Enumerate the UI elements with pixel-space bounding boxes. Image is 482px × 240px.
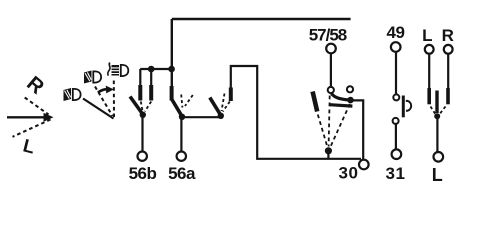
dimmer switch dashed position to contact xyxy=(223,102,230,112)
dimmer lever: momentary curved arrow xyxy=(98,89,108,92)
wire 56a pivot to dimmer switch pivot xyxy=(182,116,221,118)
dimmer switch moving arm (open, up-left) xyxy=(210,98,221,115)
wire pivot to terminal L (common) xyxy=(436,117,438,152)
switch 56b dashed position to left contact xyxy=(141,102,143,112)
56b right fixed contact bar xyxy=(149,85,153,101)
terminal circle 56a xyxy=(177,152,186,161)
switch 56b moving arm (open, up-left) xyxy=(130,97,143,115)
flasher bridge bar xyxy=(402,96,405,118)
headlamp icon: low beam (top of dimmer lever) xyxy=(84,71,101,84)
turn switch dashed position to L xyxy=(431,107,436,114)
wire 57/58 to switch contact xyxy=(330,54,332,87)
switch 56a dashed alternate position (vertical) xyxy=(181,95,182,108)
terminal circle 49 xyxy=(391,42,401,52)
top bus wire 57/58 feed xyxy=(172,18,351,20)
flasher lower contact circle xyxy=(393,118,399,124)
wire drop to 56b right contact xyxy=(150,69,152,86)
wire 49 to flasher contact xyxy=(395,52,397,94)
headlamp flasher icon: zigzag + high beam xyxy=(108,63,129,77)
svg-text:31: 31 xyxy=(385,164,405,183)
wire drop to 56b left contact xyxy=(139,69,141,86)
dimmer lever: solid ray to parking icon xyxy=(83,99,114,119)
wire 56a pivot to terminal xyxy=(180,117,182,151)
terminal circle L xyxy=(425,45,434,54)
terminal circle 30 xyxy=(359,160,369,170)
switch 56b dashed position to right contact xyxy=(145,102,151,112)
wire 56b pivot to terminal xyxy=(141,115,143,151)
svg-text:57/58: 57/58 xyxy=(309,26,347,45)
terminal circle R xyxy=(444,45,453,54)
lever dashed ray to R position xyxy=(25,98,49,115)
switch 56a dashed alternate position (diagonal) xyxy=(185,95,193,106)
headlamp icon: parking/low beam (left of dimmer lever) xyxy=(64,88,81,101)
svg-text:R: R xyxy=(442,26,454,45)
terminal circle 56b xyxy=(138,152,147,161)
lever solid arrow (neutral) xyxy=(7,116,45,118)
main switch pivot dot xyxy=(325,147,332,154)
56a fixed contact bar xyxy=(170,86,174,101)
contact circle bus side xyxy=(347,86,353,92)
turn switch left contact bar xyxy=(427,88,431,104)
wire: top bus left drop to 56a contact xyxy=(171,19,173,86)
svg-text:L: L xyxy=(432,165,443,185)
flasher push actuator arc xyxy=(406,101,411,111)
main switch dashed ray vertical xyxy=(329,96,330,147)
lever arrow head xyxy=(44,113,54,122)
turn switch right contact bar xyxy=(446,88,450,104)
flasher upper contact circle xyxy=(393,94,399,100)
junction dot on 56a feed xyxy=(168,66,175,73)
dimmer switch dashed position (steep) xyxy=(222,94,225,112)
wire L to contact xyxy=(428,54,430,89)
lever dashed ray to L position xyxy=(13,120,51,137)
junction dot 56b right contact xyxy=(148,66,155,73)
dimmer lever: dashed ray to low-beam icon xyxy=(95,87,113,117)
main switch solid bar (off position, up-left) xyxy=(313,92,318,112)
wire R to contact xyxy=(447,54,449,89)
turn switch moving arm (neutral, up) xyxy=(435,91,438,114)
wire: bus to 56b contacts xyxy=(140,68,172,70)
svg-text:56a: 56a xyxy=(168,164,196,183)
56b left fixed contact bar xyxy=(138,85,142,101)
stem pivot to bottom bus xyxy=(327,151,329,159)
main switch dashed ray to arm contact xyxy=(331,104,350,147)
svg-text:30: 30 xyxy=(338,164,358,183)
turn switch pivot dot xyxy=(434,113,440,119)
contact circle 57/58 side xyxy=(328,87,334,93)
dimmer switch fixed contact bar xyxy=(229,88,233,102)
wire: contact up and around to bottom bus (terminal 30 feed) xyxy=(231,66,361,159)
svg-text:49: 49 xyxy=(387,23,405,42)
svg-text:L: L xyxy=(422,26,432,45)
terminal circle L common xyxy=(434,152,444,162)
wire flasher contact to terminal 31 xyxy=(395,125,397,150)
svg-text:56b: 56b xyxy=(129,164,157,183)
dimmer lever: dashed ray to flasher icon xyxy=(113,81,115,118)
wire from arm contact to terminal 30 xyxy=(351,100,364,159)
switch 56b pivot dot xyxy=(140,112,146,118)
terminal circle 57/58 xyxy=(326,44,336,54)
switch 56a moving arm (closed on contact) xyxy=(172,99,182,116)
switch second bridge arm xyxy=(330,105,353,106)
main switch dashed ray from bar to pivot xyxy=(318,115,328,148)
contact dot on arm end xyxy=(347,97,354,104)
terminal circle 31 xyxy=(392,149,402,159)
switch arm 57/58 closed to bus xyxy=(332,94,349,100)
turn switch dashed position to R xyxy=(440,107,446,114)
switch 56a pivot dot xyxy=(179,114,185,120)
dimmer switch pivot dot xyxy=(218,113,224,119)
